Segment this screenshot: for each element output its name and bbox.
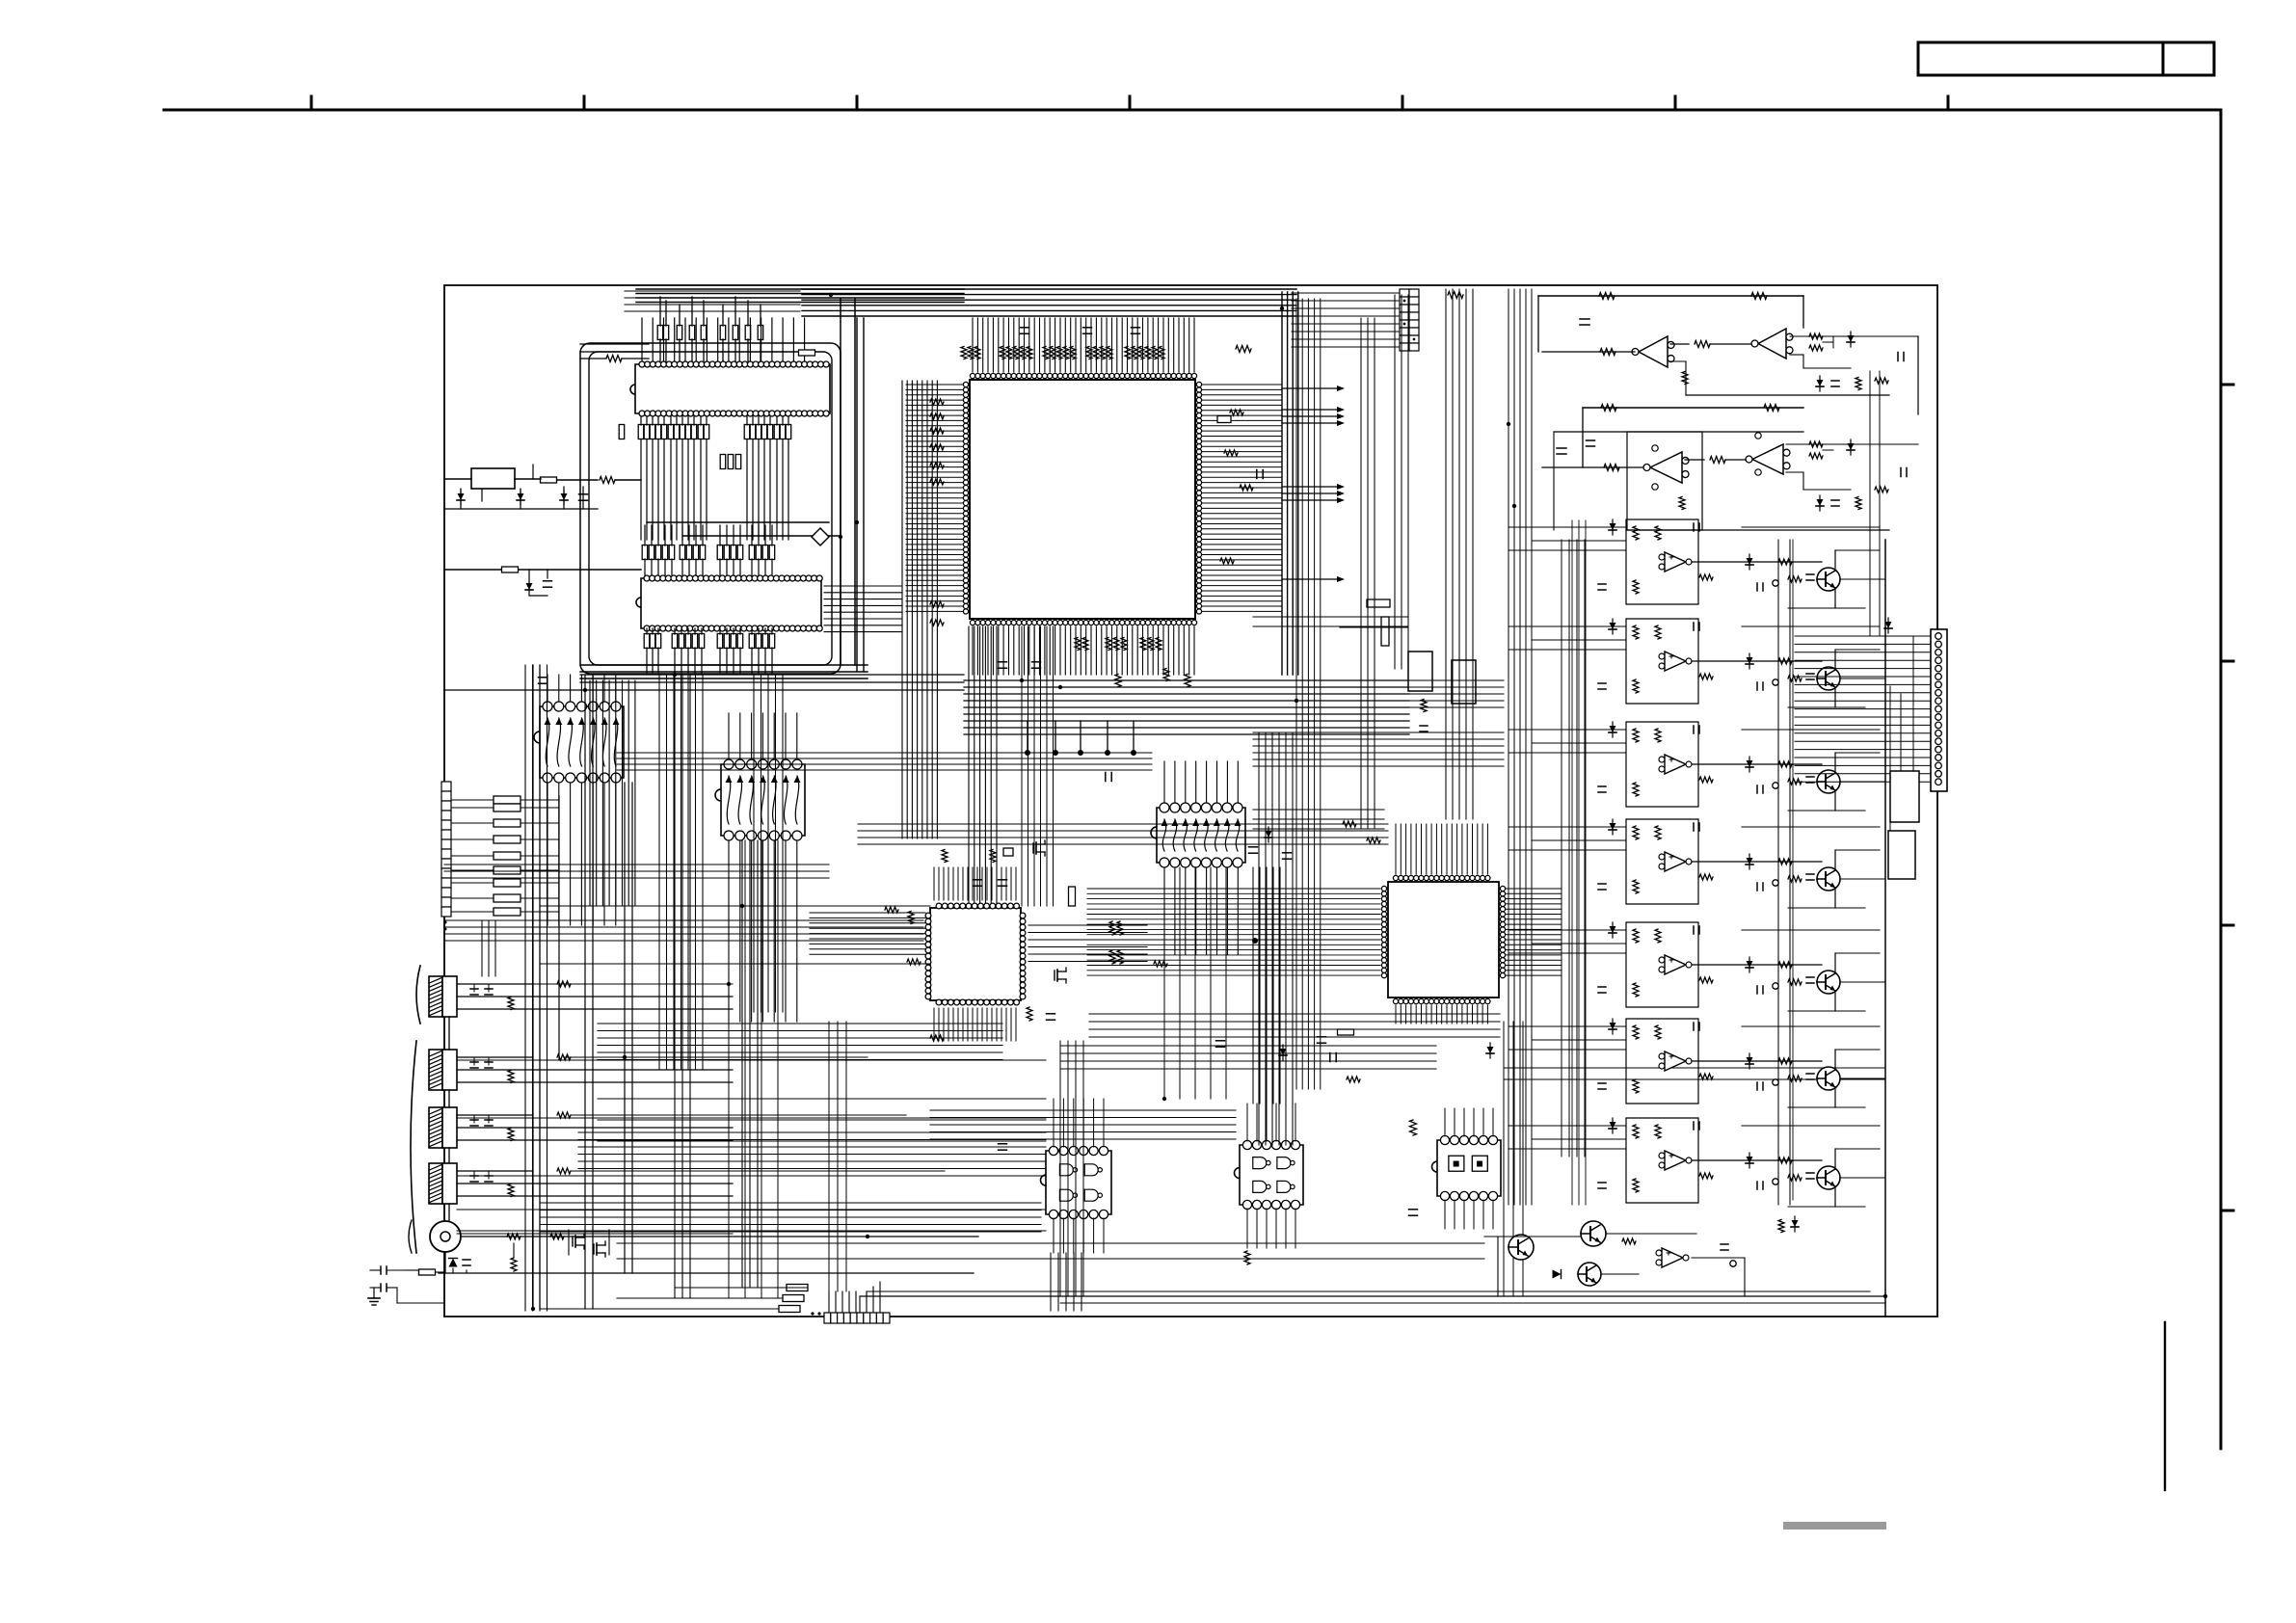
verticals right of U13 [1504, 1022, 1523, 1296]
IC U10 internal arrows [1161, 819, 1241, 851]
junction dots scattered [839, 535, 842, 539]
driver cell row 6 box [1626, 1019, 1698, 1104]
connector CN6 body [442, 1163, 457, 1204]
row 2 feed wires [1508, 625, 1626, 627]
IC U3 DIP body [636, 578, 821, 628]
CN8 zener bottom [1896, 806, 1903, 812]
ruler tick marks [310, 96, 313, 110]
IC U1 top pin row [970, 373, 1196, 378]
IC U7 left pin column [1381, 886, 1386, 977]
vertical wire x553 [532, 465, 534, 479]
horizontal bus mid right [1253, 810, 1384, 829]
resistor R4 zigzag [600, 477, 615, 484]
horizontal bus QFP U7 top feed [858, 824, 1388, 844]
CN5 capacitor a [473, 1115, 475, 1123]
vertical bundle below DIP block left [590, 680, 635, 906]
bottom right zigzag [1622, 1238, 1636, 1244]
pair2 far right zigzag [1875, 487, 1888, 492]
row 1 collector wire [1834, 550, 1836, 571]
row 4 wire out [1692, 861, 1822, 863]
wires CN7 up [828, 1291, 830, 1313]
motor wire right [461, 1236, 978, 1237]
pair1 far right cap [1897, 353, 1899, 361]
row 4 collector wire [1834, 850, 1836, 870]
wires to CN2 [1292, 293, 1400, 347]
U8 bottom wires [547, 783, 548, 925]
CN6 capacitor a [473, 1171, 475, 1179]
wires below osc [460, 489, 462, 509]
IC U12 internal gates [1253, 1157, 1295, 1193]
zigzag resistor clusters above U1 [961, 347, 967, 359]
vertical bundle x1310 [1259, 732, 1293, 1145]
U10 cap left [1105, 773, 1107, 782]
CN4 series zigzag [557, 1054, 571, 1060]
connector CN4 wires [457, 1056, 533, 1058]
IC U7 QFP body [1388, 882, 1499, 998]
bus above U3 [683, 535, 841, 537]
pair1 cap [1580, 318, 1589, 320]
U9 top wires [728, 713, 730, 759]
IC U12 bottom pins [1242, 1200, 1299, 1209]
pair2 right diode [1848, 443, 1855, 450]
pair1 far right zigzag [1875, 378, 1888, 384]
IC U1 right pin column [1196, 382, 1201, 614]
U10 top wires [1163, 761, 1165, 803]
row 7 zigzag b [1655, 1125, 1661, 1138]
wire osc to border [444, 478, 471, 480]
row 1 emitter wire [1834, 588, 1836, 608]
row 7 comparator [1665, 1151, 1686, 1170]
connector CN4 hatched [429, 1050, 442, 1090]
row 4 transistor [1817, 867, 1840, 891]
row 7 collector wire [1834, 1149, 1836, 1169]
U9 bottom wires [728, 840, 730, 1022]
row-to-connector runs [1840, 578, 1885, 580]
IC U10 bottom pins [1160, 858, 1242, 867]
wires below U6 [933, 1008, 935, 1041]
row 7 open circle [1773, 1179, 1778, 1184]
op-amp U15 triangle [1758, 329, 1786, 359]
driver cell row 5 box [1626, 922, 1698, 1007]
wires DIP2 right fan to U1 bus [824, 586, 902, 632]
row 4 cap top [1693, 823, 1695, 831]
CN3 capacitor b [488, 984, 490, 992]
row 7 caps right [1806, 1172, 1814, 1174]
IC U11 body [1041, 1151, 1112, 1214]
row 1 zigzag b [1655, 526, 1661, 540]
zigzag resistors right of U1 [1224, 450, 1238, 456]
connector CN3 wires [457, 983, 533, 985]
title block box [1918, 42, 2163, 75]
capacitors below U7 [1216, 1040, 1225, 1042]
driver cell row 1 box [1626, 519, 1698, 604]
capacitor C3 [463, 1259, 470, 1261]
row 4 zigzag b [1655, 826, 1661, 839]
U11 wires bottom [1053, 1218, 1055, 1253]
row 3 zener [1610, 726, 1616, 732]
row 5 comparator [1665, 955, 1686, 974]
row 3 caps right [1806, 776, 1814, 778]
resistor second group below U2 [720, 455, 726, 469]
zigzag resistors above U6 [942, 850, 948, 863]
single resistor left below U2 [619, 425, 625, 439]
long verticals below U10 [1164, 867, 1226, 1099]
row 7 zigzag c [1633, 1179, 1639, 1192]
wires right of U7 [1506, 888, 1562, 890]
bracket arc connector CN3 [416, 966, 420, 1024]
vertical bus right of DIP block [841, 299, 855, 665]
IC U1 QFP body [970, 380, 1195, 619]
IC U1 bottom pin row [970, 620, 1196, 625]
row 5 zener [1610, 926, 1616, 933]
pair2 connecting zigzag [1685, 459, 1704, 461]
IC U12 body [1235, 1145, 1304, 1205]
row 6 transistor [1817, 1067, 1840, 1090]
row 4 zigzag out [1699, 874, 1713, 880]
row 7 base resistor [1788, 1175, 1802, 1181]
diode D1 [458, 493, 465, 500]
row 5 wire out [1692, 964, 1822, 966]
pair2 caps left [1557, 447, 1566, 449]
row 2 wire out [1692, 660, 1822, 662]
wire loop box around DIP ICs outer [580, 343, 841, 674]
wire mesh from connectors to right [533, 983, 733, 985]
IC U11 top pins [1049, 1146, 1108, 1155]
pair1 right diode [1848, 335, 1855, 342]
bus up from U6 region [1022, 626, 1054, 906]
row 7 feed wires [1508, 1125, 1626, 1127]
arrow terminals right of U1 [1282, 387, 1338, 389]
right frame tick marks [2221, 384, 2233, 386]
CN5 zigzag [508, 1129, 514, 1141]
bottom right transistor Q8 [1508, 1235, 1534, 1260]
row 3 zigzag d [1778, 761, 1792, 767]
row 3 zigzag b [1655, 729, 1661, 742]
dots below strip [444, 921, 447, 924]
row 6 zener out [1747, 1057, 1753, 1064]
diamond junction node [812, 528, 829, 545]
row 2 zigzag c [1633, 679, 1639, 693]
row 4 zigzag c [1633, 880, 1639, 893]
bottom right zener [1792, 1220, 1799, 1227]
IC U11 bottom pins [1049, 1210, 1108, 1218]
white box below CN8 [1890, 771, 1919, 822]
row 1 comparator [1665, 552, 1686, 572]
vertical bus left of U1 [902, 381, 937, 838]
CN8 zener top [1885, 622, 1892, 628]
pair2 box outline [1627, 432, 1702, 530]
pair1 zigzag on bus b [1751, 293, 1767, 300]
title block small box [2163, 42, 2214, 75]
row 1 feed wires [1508, 526, 1626, 528]
U13 cap below [1409, 1209, 1418, 1211]
capacitor right of U1 [1256, 470, 1258, 479]
row 3 zigzag out [1699, 777, 1713, 783]
IC U6 right pin column [1020, 913, 1026, 999]
page right frame line [2220, 110, 2223, 1449]
resistor array below U2 right [744, 425, 750, 439]
row 7 cap top [1693, 1122, 1695, 1130]
row 7 zigzag a [1633, 1125, 1639, 1138]
comparator pair1 top feedback wire [1538, 295, 1803, 297]
row 6 base resistor [1788, 1076, 1802, 1081]
zigzag resistors lower below U1 [1115, 675, 1121, 687]
IC U13 top pins [1440, 1135, 1497, 1144]
inner vertical border line [1884, 540, 1886, 1317]
row 7 wire out [1692, 1159, 1822, 1161]
CN3 series zigzag [557, 981, 571, 987]
bottom right transistor Q9b [1578, 1263, 1601, 1286]
connector CN5 hatched [429, 1107, 442, 1148]
wires right of U6 [1028, 925, 1147, 962]
CN3 zigzag [508, 998, 514, 1010]
U13 wires [1444, 1108, 1446, 1136]
zigzag below U7 [1347, 1077, 1360, 1082]
row 5 collector wire [1834, 953, 1836, 973]
U1 bottom bus extension right [1409, 680, 1504, 707]
resistors above CN7 [787, 1285, 808, 1291]
IC U9 bottom pins [724, 831, 802, 840]
row 1 cap left [1598, 583, 1606, 585]
op-amp U17 triangle [1752, 444, 1783, 474]
horizontal bundle below A1 [444, 920, 923, 941]
row 2 zigzag d [1778, 658, 1792, 664]
double zigzag right of U6 lower [1109, 950, 1115, 964]
revision gray bar [1783, 1522, 1886, 1530]
wire mesh horizontal long runs [540, 906, 930, 964]
bus mid horizontal [580, 675, 964, 682]
vertical bus between U6 and U10 [1060, 1041, 1083, 1296]
bottom rail extra line [1060, 1302, 1885, 1304]
row 7 transistor [1817, 1166, 1840, 1189]
pair1 zigzag below [1682, 372, 1688, 385]
horizontal bundle y900 [444, 865, 829, 878]
right connector CN8 pins [1936, 633, 1942, 785]
left vertical bundle [525, 665, 547, 1311]
horizontal bundle feeding U10 [617, 753, 1152, 770]
row 7 cap mid [1756, 1182, 1758, 1189]
row 2 base resistor [1788, 676, 1802, 681]
pair1 right resistors [1809, 333, 1823, 339]
junction dot left of U7 [1252, 938, 1258, 944]
pair1 connecting zigzag [1670, 343, 1689, 345]
zigzag below motor [511, 1258, 517, 1271]
pair1 right caps [1817, 380, 1824, 386]
row 5 cap top [1693, 926, 1695, 934]
wires from resistor array up to top bus [659, 297, 661, 326]
row 3 zigzag a [1633, 729, 1639, 742]
wires left of U6 [810, 913, 925, 954]
row 2 caps right [1806, 673, 1814, 675]
row 4 base resistor [1788, 876, 1802, 882]
bottom right open circle [1730, 1261, 1736, 1266]
row 6 zigzag b [1655, 1025, 1661, 1039]
connector CN3 hatched [429, 976, 442, 1017]
row 3 feed wires [1508, 729, 1626, 731]
mid-right wires [1340, 626, 1407, 628]
row 2 zener [1610, 623, 1616, 629]
resistor array below U2 left [638, 425, 644, 439]
mid-right cap pair [1420, 725, 1428, 727]
bottom right cap [1721, 1243, 1728, 1245]
vertical bundle right of A3 [1253, 867, 1280, 1104]
mid-right resistor h [1367, 599, 1390, 607]
center horizontal bundle y1255 [540, 1203, 1041, 1232]
IC U6 bottom pin row [936, 999, 1019, 1005]
row 5 cap left [1598, 986, 1606, 988]
row 7 zigzag out [1699, 1173, 1713, 1179]
resistor arrays below U3 [644, 634, 650, 649]
IC U12 top pins [1242, 1140, 1299, 1149]
pair2 input zigzag [1604, 465, 1619, 471]
row 2 transistor [1817, 667, 1840, 690]
bracket arc connectors CN4-6 [411, 1041, 416, 1253]
row 5 open circle [1773, 983, 1778, 989]
row 5 zigzag d [1778, 962, 1792, 968]
pair2 zigzag on bus [1601, 405, 1616, 412]
motor zigzag b [550, 1234, 564, 1239]
vertical bundle from CN2 down [1446, 289, 1473, 819]
wires U1 top pins to resistor row [972, 318, 974, 372]
row 5 cap mid [1756, 986, 1758, 994]
right connector CN8 body [1931, 629, 1947, 791]
right section vertical feed wires [1572, 520, 1586, 1205]
motor bracket [409, 1220, 412, 1253]
IC U10 top pins [1160, 803, 1242, 812]
row 5 zigzag a [1633, 929, 1639, 943]
mosfet Q11 [593, 1244, 595, 1254]
row 5 feed wires [1508, 929, 1626, 931]
pair1 zigzag left [1600, 349, 1615, 356]
CN6 capacitor b [488, 1171, 490, 1179]
pair2 input wire [1542, 466, 1646, 468]
pair1 vertical right [1917, 336, 1919, 414]
mid-right white boxes [1408, 652, 1432, 691]
row 1 cap top [1693, 523, 1695, 531]
resistor stack right of strip [494, 796, 521, 804]
double zigzag right of U6 [1109, 921, 1115, 935]
resistor below U7 [1338, 1029, 1354, 1035]
bottom right zigzagv [1778, 1220, 1784, 1233]
white box below CN8 second [1888, 831, 1915, 879]
bottom comparator [1662, 1248, 1683, 1267]
row 1 open circle [1773, 580, 1778, 586]
pair2 inner top wire [1554, 431, 1803, 433]
row 1 zigzag c [1633, 580, 1639, 594]
mosfet Q10 [572, 1237, 574, 1246]
driver cell row 2 box [1626, 619, 1698, 704]
mesh verticals below U11 [1051, 1253, 1081, 1311]
zener below U7 [1280, 1049, 1287, 1055]
row 4 zigzag d [1778, 859, 1792, 865]
mesh horizontals right-bottom [1060, 1046, 1436, 1069]
resistor on CN2 bus [1448, 292, 1463, 299]
row 6 zigzag d [1778, 1058, 1792, 1064]
row 5 transistor [1817, 971, 1840, 994]
verticals 1620-1650 [1562, 540, 1585, 1157]
row 4 cap mid [1756, 883, 1758, 891]
wires above U7 [1395, 824, 1397, 874]
row 1 cap mid [1756, 583, 1758, 591]
row 2 cap top [1693, 623, 1695, 630]
long verticals from A2 down [729, 840, 778, 1298]
wires CN7 right [859, 1296, 861, 1313]
IC U9 internal arrows [726, 776, 801, 824]
row 2 zigzag out [1699, 674, 1713, 679]
row 6 zigzag out [1699, 1074, 1713, 1079]
wires top-left corner bus [625, 291, 800, 311]
vertical bundle x1412 down to U7 [1361, 318, 1375, 829]
IC U8 internal arrows [545, 718, 620, 766]
U8 top wires [547, 675, 548, 702]
op-amp U16 triangle [1650, 452, 1682, 483]
row 2 emitter wire [1834, 687, 1836, 707]
wires U2 top pins up [641, 318, 643, 361]
left inner wires to U2 [580, 343, 649, 345]
row 3 transistor [1817, 770, 1840, 793]
test point stubs below U1 [1027, 721, 1028, 750]
comparator pair2 feedback wire [1583, 407, 1803, 409]
row 3 cap left [1598, 785, 1606, 787]
driver cell row 3 box [1626, 722, 1698, 807]
wires from resistor stack [558, 796, 560, 1060]
row 6 cap mid [1756, 1082, 1758, 1090]
U12 wires bottom [1246, 1209, 1248, 1248]
wire loop box around DIP ICs inner [589, 352, 832, 665]
DIP block bottom bus [580, 665, 868, 678]
CN4 capacitor a [473, 1057, 475, 1065]
op-amp U14 triangle [1639, 336, 1668, 367]
row 7 zener [1610, 1122, 1616, 1129]
row 3 open circle [1773, 783, 1778, 788]
oscillator X1 box [471, 468, 515, 489]
schematic outer border [444, 285, 1937, 1317]
CN5 series zigzag [557, 1112, 571, 1118]
row 7 zener out [1747, 1157, 1753, 1163]
vertical bus right of U1 descend [1296, 299, 1321, 1089]
row 4 zener out [1747, 858, 1753, 865]
IC U13 internal gates [1449, 1156, 1464, 1171]
left vertical connector strip [441, 782, 451, 791]
row 4 open circle [1773, 880, 1778, 886]
row 1 zener [1610, 523, 1616, 530]
IC U6 QFP body [930, 908, 1021, 1000]
bus lines from DIP block to U1 top [802, 289, 1296, 316]
right long verticals x1565-1590 [1508, 289, 1532, 1205]
vertical bus bend down right of U1 [1282, 292, 1298, 675]
row 7 zigzag d [1778, 1157, 1792, 1163]
mosfet right of U6 [1054, 971, 1055, 980]
bottom long wires [675, 1287, 808, 1289]
U1 right pin stub wires [1202, 384, 1282, 386]
IC U13 body [1432, 1140, 1502, 1196]
row 4 zener [1610, 823, 1616, 830]
pair1 input wire [1542, 351, 1635, 353]
row 2 zener out [1747, 657, 1753, 664]
row 5 zigzag b [1655, 929, 1661, 943]
capacitors above U7 [1249, 846, 1258, 848]
IC U8 bottom pins [543, 773, 621, 783]
CN4 capacitor b [488, 1057, 490, 1065]
capacitor C2 [544, 580, 552, 582]
IC U2 bottom pin row [639, 411, 829, 416]
vertical bundle x780 down [754, 675, 783, 1012]
zigzag resistors on U1 left pins [930, 399, 944, 405]
row 2 collector wire [1834, 650, 1836, 670]
capacitor C1 [579, 493, 588, 495]
mid-right thin resistor [1381, 617, 1389, 646]
IC U3 bottom pin row [644, 625, 822, 631]
